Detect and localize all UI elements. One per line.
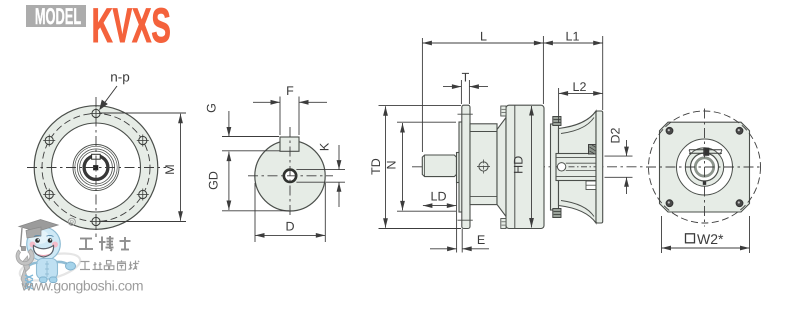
- svg-text:D2: D2: [609, 127, 623, 143]
- svg-text:F: F: [286, 84, 294, 98]
- svg-text:E: E: [477, 233, 485, 247]
- svg-text:L: L: [480, 30, 487, 44]
- svg-text:G: G: [205, 103, 219, 113]
- svg-text:MODEL: MODEL: [35, 3, 81, 29]
- svg-text:M: M: [163, 164, 177, 174]
- svg-text:LD: LD: [431, 190, 447, 204]
- svg-text:HD: HD: [512, 156, 526, 174]
- svg-text:GD: GD: [207, 171, 221, 190]
- svg-text:L2: L2: [573, 80, 587, 94]
- svg-text:TD: TD: [369, 158, 383, 175]
- svg-text:T: T: [462, 71, 470, 85]
- svg-text:www.gongboshi.com: www.gongboshi.com: [21, 277, 144, 293]
- svg-text:L1: L1: [566, 30, 580, 44]
- svg-text:K: K: [318, 142, 332, 151]
- svg-text:R: R: [69, 220, 74, 227]
- svg-text:W2*: W2*: [697, 231, 724, 247]
- svg-text:D: D: [285, 220, 294, 234]
- svg-text:N: N: [385, 160, 399, 169]
- svg-text:KVXS: KVXS: [92, 0, 171, 53]
- svg-text:n-p: n-p: [110, 70, 130, 85]
